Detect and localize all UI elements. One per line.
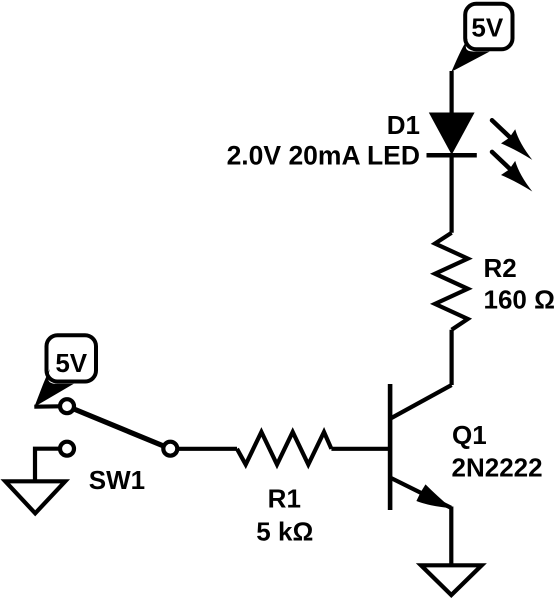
wire Q1 emitter to ground xyxy=(449,507,453,566)
svg-text:5 kΩ: 5 kΩ xyxy=(256,516,313,546)
svg-text:5V: 5V xyxy=(471,13,503,43)
transistor Q1 xyxy=(390,384,452,510)
power flag 5V V2 (switch) xyxy=(34,335,96,407)
wire V2 flag to SW1 pole xyxy=(34,404,60,409)
svg-text:5V: 5V xyxy=(55,348,87,378)
svg-text:Q1: Q1 xyxy=(452,420,487,450)
diode D1 LED xyxy=(427,113,477,156)
resistor R2 xyxy=(435,233,468,330)
svg-text:160 Ω: 160 Ω xyxy=(484,285,555,315)
wire Q1 base xyxy=(331,447,390,451)
wire V1 to D1 anode xyxy=(450,71,454,115)
LED light arrow 2 xyxy=(492,152,532,192)
svg-text:SW1: SW1 xyxy=(89,465,145,495)
switch SW1 xyxy=(60,399,177,456)
svg-text:D1: D1 xyxy=(387,110,420,140)
wire SW1 throw to ground xyxy=(35,449,60,482)
wire R2 to Q1 collector xyxy=(450,330,454,385)
power flag 5V V1 (top right) xyxy=(451,4,512,72)
svg-text:R2: R2 xyxy=(484,253,517,283)
svg-text:2.0V 20mA LED: 2.0V 20mA LED xyxy=(227,140,420,170)
wire D1 cathode to R2 xyxy=(450,154,454,233)
ground (emitter) xyxy=(421,565,482,595)
ground (switch) xyxy=(5,481,65,513)
resistor R1 xyxy=(237,432,331,465)
LED light arrow 1 xyxy=(492,120,532,160)
svg-text:2N2222: 2N2222 xyxy=(452,453,543,483)
svg-text:R1: R1 xyxy=(268,484,301,514)
wire SW1 common to R1 xyxy=(177,447,237,451)
